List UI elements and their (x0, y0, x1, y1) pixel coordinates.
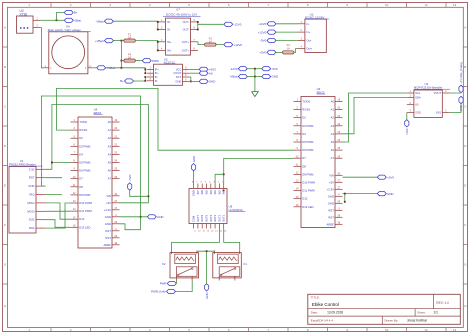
svg-text:REV: 1.0: REV: 1.0 (436, 301, 449, 305)
wire B+ flag to IP- bracket (134, 77, 146, 81)
svg-text:RST: RST (105, 229, 111, 233)
svg-text:Drawn By:: Drawn By: (384, 319, 398, 323)
net flag -VBatt (96, 19, 114, 23)
svg-text:OUT3: OUT3 (213, 214, 217, 222)
net flag +5V0 U5 (199, 67, 216, 71)
svg-text:D10 PWM: D10 PWM (302, 181, 315, 185)
svg-text:In+: In+ (306, 30, 310, 34)
svg-text:G: G (4, 262, 7, 266)
svg-text:B: B (464, 65, 466, 69)
svg-text:B: B (4, 65, 6, 69)
wire U6 VOUT to throttle flag (449, 92, 461, 94)
wire +5V0 vertical flag link (130, 190, 149, 196)
svg-text:8: 8 (307, 3, 309, 7)
wire U5 VIOUT to A0 flag (189, 72, 199, 74)
wire F1 to U7 IN+ (135, 41, 158, 51)
svg-text:Date:: Date: (311, 311, 318, 315)
svg-text:+12V0: +12V0 (258, 30, 267, 34)
svg-text:5: 5 (194, 19, 196, 22)
svg-text:GND: GND (105, 222, 111, 226)
svg-text:12: 12 (207, 230, 210, 232)
svg-text:12: 12 (453, 328, 457, 332)
current sensor U5 ACS712 (147, 57, 189, 85)
junction U8 IN1 branch (223, 173, 225, 175)
svg-text:VIN: VIN (106, 194, 111, 198)
wire F3 to U2 Out+ (294, 49, 298, 53)
svg-text:MOSI: MOSI (27, 209, 34, 213)
svg-text:D6 PWM: D6 PWM (302, 148, 314, 152)
relay K1 (213, 251, 248, 281)
svg-text:VSS: VSS (436, 111, 442, 115)
svg-text:OUT2: OUT2 (217, 214, 221, 222)
svg-text:D8: D8 (79, 185, 83, 189)
svg-text:D4: D4 (79, 152, 83, 156)
net flag -12V0 tie (230, 67, 248, 71)
svg-text:F: F (464, 223, 466, 227)
svg-text:7: 7 (194, 39, 196, 42)
wire PWR_Kelly flag to K2 (175, 281, 192, 292)
wire U1 SCK to U4 D13 (45, 220, 70, 228)
svg-text:D12: D12 (302, 197, 308, 201)
net flag VBatt (64, 18, 81, 22)
svg-text:F: F (4, 223, 6, 227)
junction U7 OUT- pin5 (197, 21, 199, 23)
svg-text:A4: A4 (331, 132, 335, 136)
svg-text:OUT-: OUT- (183, 20, 190, 24)
svg-text:D2: D2 (79, 136, 83, 140)
net flag +5V0 vertical near U4 (128, 174, 132, 190)
svg-text:IP-: IP- (155, 79, 158, 83)
svg-text:D7: D7 (302, 156, 306, 160)
junction +5V0 flag tap (148, 195, 150, 197)
svg-text:3.3V: 3.3V (29, 167, 35, 171)
svg-text:3: 3 (301, 38, 303, 41)
svg-text:1A: 1A (287, 46, 290, 50)
net flag -VBatt tie (229, 74, 247, 78)
wire junction to F4 (121, 60, 123, 62)
svg-text:D3 PWM: D3 PWM (302, 124, 314, 128)
svg-text:D11 PWM: D11 PWM (79, 209, 92, 213)
svg-text:A4: A4 (108, 152, 112, 156)
svg-text:IN-: IN- (167, 20, 171, 24)
wire U1 RST stub (45, 177, 62, 179)
net flag GND U5 (199, 79, 215, 83)
svg-text:-VBatt: -VBatt (96, 19, 104, 23)
wire -12V0 to U2 In- (276, 23, 298, 25)
svg-text:2: 2 (70, 3, 72, 7)
svg-text:11: 11 (425, 3, 428, 7)
net flag B+ sensor (120, 79, 133, 83)
net flag +12V0 U2 in (258, 30, 276, 34)
connector U3 XT90 (17, 9, 41, 33)
svg-text:1: 1 (161, 19, 163, 22)
net flag GND tie (262, 74, 278, 78)
junction GND net U4 (140, 216, 142, 218)
svg-text:A1: A1 (331, 108, 335, 112)
svg-text:IN4: IN4 (209, 190, 213, 195)
svg-text:TX/D0: TX/D0 (302, 100, 310, 104)
junction U3 pin1 (56, 19, 58, 21)
svg-text:E: E (4, 183, 6, 187)
svg-text:+VBatt: +VBatt (95, 39, 104, 43)
svg-text:+5V0: +5V0 (128, 174, 132, 181)
net flag +12V0 U7 out (224, 43, 243, 47)
svg-text:1: 1 (28, 3, 30, 7)
svg-text:6: 6 (228, 3, 230, 7)
svg-text:EasyEDA V4.4.4: EasyEDA V4.4.4 (311, 319, 334, 323)
wire serial link U4 RX to U9 D6 (57, 88, 294, 150)
wire U7 OUT- to -12V0 flag (198, 23, 224, 25)
fuse F4 2A (124, 52, 136, 62)
fuse F3 1A (282, 43, 294, 54)
svg-text:D13 LED: D13 LED (302, 205, 313, 209)
svg-text:Out+: Out+ (306, 47, 312, 51)
svg-text:4: 4 (149, 3, 151, 7)
svg-text:IN7: IN7 (196, 190, 200, 195)
svg-text:A5: A5 (331, 140, 335, 144)
svg-text:GND: GND (157, 215, 163, 219)
svg-text:12: 12 (453, 3, 457, 7)
driver U8 ULN2003A (189, 182, 246, 233)
net flag +Throttle_Analog vertical (459, 62, 463, 93)
svg-text:GND: GND (205, 293, 209, 299)
junction IP- b (144, 80, 146, 82)
svg-text:+5V0: +5V0 (259, 51, 266, 55)
svg-text:+5V0: +5V0 (405, 128, 409, 135)
svg-text:PWR: PWR (160, 282, 167, 286)
microcontroller U4 EBAS (71, 108, 120, 248)
svg-text:7: 7 (196, 182, 198, 184)
wire -5V0 to U2 Out- (276, 40, 298, 42)
junction F1 feed (121, 40, 123, 42)
svg-text:-12V0: -12V0 (234, 22, 242, 26)
svg-text:RX/D1: RX/D1 (79, 128, 88, 132)
svg-text:1A: 1A (209, 40, 212, 44)
junction IP+ a (144, 69, 146, 71)
wire U3 pin2 to S4 pin1 (41, 28, 44, 68)
svg-text:D: D (4, 144, 7, 148)
svg-text:Sheet:: Sheet: (417, 311, 426, 315)
svg-text:A0: A0 (331, 100, 335, 104)
svg-text:+12V0: +12V0 (234, 43, 243, 47)
wire F1 junction down to F4 (120, 41, 122, 68)
junction +VBatt F1 tap (121, 67, 123, 69)
DAC U6 MCP4725 DA-Wandler (407, 82, 451, 117)
svg-text:A3: A3 (331, 124, 335, 128)
microcontroller U9 EBCS (294, 87, 343, 227)
svg-text:Out-: Out- (306, 39, 311, 43)
svg-text:OUT5: OUT5 (205, 214, 209, 222)
DC-DC converter U2 (298, 12, 329, 52)
net flag -12V0 U7 out (224, 22, 242, 26)
svg-text:IN5: IN5 (205, 190, 209, 195)
svg-text:2: 2 (161, 27, 163, 30)
net flag -12V0 U2 in (258, 22, 276, 26)
wire F4 to PWR flag (135, 60, 142, 62)
wire U1 SDA to U4 D10 (45, 203, 70, 228)
svg-text:D5 PWM: D5 PWM (79, 161, 91, 165)
svg-text:10: 10 (385, 328, 389, 332)
svg-text:GND: GND (175, 79, 181, 83)
svg-text:GND: GND (328, 201, 334, 205)
svg-text:K2: K2 (162, 262, 166, 266)
svg-text:6: 6 (200, 182, 202, 184)
junction tie row2 (254, 76, 256, 78)
svg-text:PWR: PWR (152, 59, 159, 63)
svg-text:D9 PWM: D9 PWM (79, 193, 91, 197)
net flag +VBatt switch out (97, 66, 116, 70)
svg-text:D11 PWM: D11 PWM (302, 189, 315, 193)
svg-text:A7: A7 (331, 156, 335, 160)
net flag PWR (142, 59, 159, 63)
svg-text:D9 PWM: D9 PWM (302, 172, 314, 176)
svg-text:OUT-: OUT- (183, 28, 190, 32)
junction D5 tap (51, 162, 53, 164)
svg-text:IP+: IP+ (155, 67, 159, 71)
svg-text:A1: A1 (108, 128, 112, 132)
svg-text:D5 PWM: D5 PWM (302, 140, 314, 144)
svg-text:A: A (4, 25, 6, 29)
svg-text:D3 PWM: D3 PWM (79, 144, 91, 148)
svg-text:1/1: 1/1 (434, 311, 439, 315)
net flag +VBatt fuse feed (95, 39, 114, 43)
svg-text:+5V: +5V (106, 201, 111, 205)
svg-text:8: 8 (194, 47, 196, 50)
svg-text:VDD: VDD (415, 111, 421, 115)
wire U6 VDD to +5V0 flag (406, 113, 408, 120)
svg-text:TITLE:: TITLE: (311, 295, 320, 299)
svg-text:VOUT: VOUT (434, 91, 442, 95)
svg-text:SDA: SDA (29, 226, 35, 230)
net flag +5V0 vertical U6 (405, 120, 409, 136)
svg-text:15: 15 (220, 230, 223, 232)
wire U4 D5 tap (52, 162, 71, 164)
fuse F2 1A (205, 36, 217, 46)
svg-text:TX/D0: TX/D0 (79, 120, 87, 124)
wire U1 MOSI to U4 D11 (45, 210, 70, 212)
wire -VBatt tie row (247, 76, 261, 78)
svg-text:B+: B+ (120, 79, 124, 83)
svg-text:1: 1 (50, 67, 52, 70)
svg-text:GND: GND (209, 80, 215, 84)
wire tie vertical to ground (254, 69, 256, 92)
junction F4 feed (121, 60, 123, 62)
wire +VBatt to IP+ bracket (106, 68, 146, 73)
junction U9 GND a (344, 193, 346, 195)
svg-text:14: 14 (215, 230, 218, 232)
svg-text:A: A (464, 25, 466, 29)
svg-text:VIN: VIN (329, 173, 334, 177)
svg-text:IN3: IN3 (213, 190, 217, 195)
svg-text:11: 11 (425, 328, 428, 332)
net flag B+ top (64, 10, 78, 14)
junction U5 FILT GND (190, 81, 192, 83)
svg-text:-VBatt: -VBatt (229, 75, 237, 79)
junction IP+ b (144, 72, 146, 74)
svg-text:A0: A0 (209, 71, 213, 75)
svg-text:H: H (464, 304, 466, 308)
wire U4 GND to flag (120, 216, 148, 218)
wire U1 IRQ stub (45, 194, 62, 196)
svg-text:RST: RST (328, 215, 334, 219)
svg-text:D13 LED: D13 LED (79, 225, 90, 229)
net flag GND U4 (147, 215, 163, 219)
wire +VBatt flag to F1 (114, 40, 124, 42)
svg-text:D12: D12 (79, 217, 85, 221)
svg-text:6: 6 (194, 27, 196, 30)
wire U7 OUT+ to F2 (198, 42, 204, 45)
svg-text:OUT7: OUT7 (196, 214, 200, 222)
svg-text:+3.3V: +3.3V (327, 187, 335, 191)
wire U8 GND flag link (193, 171, 195, 184)
svg-text:G: G (464, 262, 467, 266)
svg-text:D: D (464, 144, 467, 148)
svg-text:9: 9 (194, 230, 196, 232)
wire U6 VSS to GND flag (449, 104, 461, 113)
svg-text:IP+: IP+ (155, 71, 159, 75)
svg-text:GND: GND (328, 194, 334, 198)
svg-text:2: 2 (218, 182, 220, 184)
junction U7 IN+ pin3 (157, 41, 159, 43)
wire U9 5V to +5V0 flag (343, 176, 378, 178)
svg-text:2A: 2A (128, 56, 131, 60)
svg-text:VBatt: VBatt (74, 18, 81, 22)
wire U9 GND bracket (344, 194, 346, 202)
net flag +5V0 U2 (259, 50, 276, 54)
svg-text:A0: A0 (108, 120, 112, 124)
svg-text:MISO: MISO (27, 201, 35, 205)
svg-text:OUT+: OUT+ (182, 49, 190, 53)
svg-text:IN+: IN+ (167, 49, 172, 53)
svg-text:Ebike Control: Ebike Control (312, 302, 339, 307)
title block (308, 294, 461, 324)
svg-text:U7: U7 (176, 8, 180, 12)
svg-text:9: 9 (346, 3, 348, 7)
wire GND net U1 to U4 (41, 96, 140, 230)
svg-text:5: 5 (205, 182, 207, 184)
net flag GND vertical U6 out (459, 96, 463, 111)
svg-text:2: 2 (301, 29, 303, 32)
svg-text:OUT4: OUT4 (209, 214, 213, 222)
svg-text:RST: RST (29, 176, 35, 180)
svg-text:AREF: AREF (327, 222, 335, 226)
svg-text:OUT6: OUT6 (200, 214, 204, 222)
wire U8 IN3 branch (215, 174, 224, 183)
net flag -5V0 tie (262, 67, 278, 71)
svg-text:+3.3V: +3.3V (104, 208, 112, 212)
wire U3 pin1 to junction (41, 19, 57, 21)
junction U7 IN+ pin4 (157, 50, 159, 52)
svg-text:D6 PWM: D6 PWM (79, 169, 91, 173)
svg-text:GND: GND (192, 156, 196, 162)
svg-text:GND: GND (28, 184, 34, 188)
svg-text:IN-: IN- (167, 28, 171, 32)
wire U5 FILT to GND (189, 77, 191, 81)
wire U7 OUT- bracket (197, 22, 199, 30)
net flag +5V0 U9 (377, 175, 394, 179)
RFID reader U1 PN532 (9, 159, 45, 233)
svg-text:-12V0: -12V0 (230, 67, 238, 71)
svg-text:A7: A7 (108, 177, 112, 181)
svg-text:K1: K1 (244, 262, 248, 266)
ground symbol (252, 92, 259, 97)
wire +12V0 to U2 In+ (276, 31, 298, 33)
junction IP- a (144, 76, 146, 78)
svg-text:4: 4 (161, 47, 163, 50)
svg-text:A0: A0 (415, 103, 419, 107)
svg-text:1: 1 (301, 21, 303, 24)
svg-text:-5V0: -5V0 (272, 67, 278, 71)
svg-text:+5V: +5V (329, 180, 334, 184)
svg-text:OUT1: OUT1 (222, 214, 226, 222)
net flag GND U9 (377, 192, 393, 196)
svg-text:3: 3 (109, 3, 111, 7)
wire -12V0 tie row (247, 68, 261, 70)
wire U9 D7 to U8 IN1 (224, 158, 294, 183)
junction U7 IN- pin1 (157, 21, 159, 23)
svg-text:-12V0: -12V0 (258, 22, 266, 26)
svg-text:A2: A2 (331, 116, 335, 120)
svg-text:SDA: SDA (415, 95, 421, 99)
wire F2 to +12V0 flag (216, 44, 224, 46)
svg-text:In-: In- (306, 22, 309, 26)
switch S4 main switch high voltage (44, 25, 93, 74)
svg-text:VIOUT: VIOUT (173, 71, 181, 75)
svg-text:GND: GND (192, 190, 196, 196)
svg-text:H: H (4, 304, 6, 308)
wire junction to VBatt flag (57, 19, 65, 21)
svg-text:SCL: SCL (415, 91, 421, 95)
svg-text:Jonas Kollmar: Jonas Kollmar (407, 319, 428, 323)
wire U8 OUT1 to K1 coil (224, 229, 240, 251)
wire S4 pin2 to +VBatt flag (93, 67, 97, 69)
svg-text:PWR_Kelly: PWR_Kelly (151, 290, 166, 294)
wire U5 VCC to +5V0 flag (189, 68, 199, 70)
svg-text:IP-: IP- (155, 75, 158, 79)
DC-DC converter U7 (158, 8, 201, 56)
svg-text:IN+: IN+ (167, 40, 172, 44)
svg-text:2A: 2A (128, 36, 131, 40)
svg-text:IN2: IN2 (217, 190, 221, 195)
wire PWR flag to K2 (175, 281, 177, 284)
svg-text:4: 4 (301, 46, 303, 49)
net flag -5V0 U2 (260, 38, 276, 42)
junction tie row1 (254, 68, 256, 70)
svg-text:A6: A6 (331, 148, 335, 152)
svg-text:5: 5 (188, 3, 190, 7)
svg-text:13: 13 (211, 230, 214, 232)
svg-text:+5V0: +5V0 (387, 175, 394, 179)
svg-text:D7: D7 (79, 177, 83, 181)
svg-text:GND: GND (105, 215, 111, 219)
svg-text:VCC: VCC (176, 67, 182, 71)
svg-text:10: 10 (385, 3, 389, 7)
svg-text:A6: A6 (108, 169, 112, 173)
wire U5 GND to GND flag (189, 80, 199, 82)
svg-text:2: 2 (85, 67, 87, 70)
svg-text:RST: RST (105, 236, 111, 240)
svg-text:A3: A3 (108, 144, 112, 148)
junction U7 OUT- pin6 (197, 29, 199, 31)
svg-text:4: 4 (209, 182, 211, 184)
svg-text:-5V0: -5V0 (260, 39, 266, 43)
svg-text:11: 11 (202, 230, 205, 232)
svg-text:D2: D2 (302, 116, 306, 120)
svg-text:COM: COM (192, 215, 196, 222)
svg-text:C: C (464, 104, 467, 108)
svg-text:IRQ: IRQ (30, 193, 36, 197)
svg-text:D10 PWM: D10 PWM (79, 201, 92, 205)
